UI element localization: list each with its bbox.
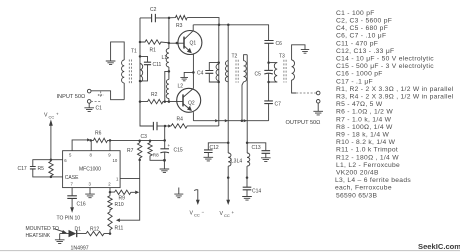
wire: pin 5 jog with arrow [72,138,90,150]
resistor R7 [127,141,142,160]
svg-text:R10: R10 [115,202,124,208]
svg-text:2: 2 [108,182,111,187]
svg-text:C3: C3 [141,134,148,140]
svg-text:R9: R9 [119,196,126,202]
svg-text:5: 5 [69,153,72,158]
node: junction dots R9/R11 [109,191,112,235]
ground (between Q1 and Q2) [180,72,193,80]
node: junction dots (L1/L2 column) [164,17,179,103]
svg-text:C2, C3 - 5600 pF: C2, C3 - 5600 pF [336,18,392,25]
wire: pin 1 stub [120,178,140,180]
svg-text:OUTPUT 50Ω: OUTPUT 50Ω [286,120,321,126]
resistor R9 [110,190,139,201]
svg-text:R3: R3 [176,23,183,29]
svg-text:R11: R11 [115,226,124,232]
ground (C13) [261,158,271,162]
wire: R3 to top rail corner [187,18,219,25]
capacitor C5 [255,63,273,82]
resistor R3 [169,15,187,29]
ground (T1 primary top) [106,61,116,65]
capacitor C11 [140,56,162,81]
wire: Q1 emitter to Q2 collector x=193.4 [192,55,194,89]
svg-text:L4: L4 [237,158,243,164]
svg-text:R7 - 1.0 k, 1/4 W: R7 - 1.0 k, 1/4 W [336,116,392,123]
node: junction dots x=218.7 column [217,61,220,83]
svg-text:R8 - 100Ω, 1/4 W: R8 - 100Ω, 1/4 W [336,124,393,131]
svg-text:R3, R4 - 2 X 3.9Ω , 1/2 W in p: R3, R4 - 2 X 3.9Ω , 1/2 W in parallel [336,94,454,101]
svg-text:CC: CC [49,114,55,119]
capacitor C12 [204,143,228,158]
wire: L2 bypass x=164.8 [165,71,169,101]
svg-text:C14: C14 [252,189,261,195]
wire: top supply rail y=24.8 [193,24,269,26]
svg-text:L3, L4 – 6 ferrite beads: L3, L4 – 6 ferrite beads [335,177,411,184]
capacitor C6 [264,25,282,63]
svg-text:C15 - 500 μF - 3 V electrolyti: C15 - 500 μF - 3 V electrolytic [336,63,434,70]
svg-text:C7: C7 [275,102,282,108]
capacitor C14 [243,178,262,197]
node: arrows and dot on emitter run [215,119,247,122]
wire: R7 bottom to R11 wiper [116,160,140,222]
svg-text:C17 - .1 μF: C17 - .1 μF [336,78,373,85]
label: mounted to heatsink with arrow [26,226,67,239]
svg-text:C1: C1 [96,106,103,112]
svg-text:C16 - 1000 pF: C16 - 1000 pF [336,71,383,78]
svg-text:C6: C6 [276,41,283,47]
svg-text:R12 - 180Ω , 1/4 W: R12 - 180Ω , 1/4 W [336,154,399,161]
svg-text:R7: R7 [127,148,134,154]
wire: left feedback column x=140 from C2 down to C3 corner [140,18,153,126]
svg-text:TO PIN 10: TO PIN 10 [57,216,81,222]
svg-text:Q1: Q1 [190,41,197,47]
svg-text:R8: R8 [153,153,159,158]
svg-text:R4: R4 [177,117,184,123]
resistor R8 [148,141,165,161]
wire: pin 6 [51,159,63,161]
svg-text:R11 - 1.0 k Trimpot: R11 - 1.0 k Trimpot [336,147,398,154]
svg-text:L2: L2 [178,84,184,90]
svg-text:+: + [56,112,59,117]
svg-text:R5: R5 [38,166,45,172]
svg-text:56590 65/3B: 56590 65/3B [336,192,377,199]
wire: T2 wrap-around column x=247.2 [246,55,248,153]
wire: output dashed lead [296,92,316,94]
svg-text:R6 - 1.0Ω , 1/2 W: R6 - 1.0Ω , 1/2 W [336,109,393,116]
ground (floating near VCC-) [174,188,183,198]
node: junction dots L3/L4 columns [227,142,248,179]
supply VCC+ (left) [44,112,59,161]
ground (pin 3) [85,188,95,198]
node: junction dots VCC/R5 [50,158,53,178]
svg-text:+: + [168,143,171,148]
transistor Q2 [177,88,201,120]
resistor R12 [86,227,110,236]
capacitor C16 [57,188,86,222]
svg-text:C1 - 100 pF: C1 - 100 pF [336,10,375,17]
parts list text [335,10,454,199]
diode D1 [60,227,89,252]
svg-text:T3: T3 [279,54,285,60]
input connector circles [57,89,91,103]
svg-text:CC: CC [224,213,230,218]
inductor L1 [162,18,169,67]
ground (D1 anode) [55,234,65,244]
svg-text:R1, R2 - 2 X 3.3Ω , 1/2 W in p: R1, R2 - 2 X 3.3Ω , 1/2 W in parallel [336,86,454,93]
resistor R2 [140,92,183,104]
svg-text:10: 10 [113,158,118,163]
capacitor C13 [247,143,270,158]
svg-text:C17: C17 [18,166,27,172]
svg-text:C4, C5 - 680 pF: C4, C5 - 680 pF [336,25,388,32]
svg-text:C15: C15 [174,148,183,154]
svg-text:V: V [44,113,48,119]
capacitor C2 [140,7,169,22]
svg-text:T2: T2 [232,54,238,60]
svg-text:R9 - 18 k, 1/4 W: R9 - 18 k, 1/4 W [336,132,390,139]
node: junction dots C5/C6/C7 column [267,61,270,83]
ground (T3 secondary top) [301,50,309,54]
svg-text:1: 1 [116,177,119,182]
wire: R7/R8 top rail to C15 [110,139,165,141]
svg-text:C12, C13 - .33 μF: C12, C13 - .33 μF [336,48,394,55]
svg-text:CC: CC [194,212,200,217]
svg-text:9: 9 [108,153,111,158]
ground (C15) [160,160,170,172]
svg-text:C11: C11 [153,62,162,68]
resistor R4 [168,117,219,129]
ground (C12) [204,157,214,161]
svg-text:V: V [190,211,194,217]
svg-text:C11 - 470 pF: C11 - 470 pF [336,40,378,47]
node: junction dots (left column) [139,41,142,103]
svg-text:7: 7 [71,182,74,187]
svg-text:R10 - 8.2 k, 1/4 W: R10 - 8.2 k, 1/4 W [336,139,396,146]
svg-text:L1: L1 [162,55,168,61]
node: junction dots R6 rail [89,139,151,161]
wire: pin 2 stub [109,188,111,196]
svg-text:SeekIC.com: SeekIC.com [418,242,460,251]
capacitor C1 (dashed coax) [91,91,104,111]
wire: pin 8 stub [90,140,92,150]
svg-text:VK200 20/4B: VK200 20/4B [336,170,379,177]
svg-text:T1: T1 [131,49,137,55]
transistor Q1 [169,25,202,55]
wire: bottom scan edge line [0,250,460,252]
resistor R6 [91,131,110,143]
svg-text:V: V [220,211,224,217]
inductor L2 [166,67,183,102]
inductor L4 [237,153,250,178]
resistor R1 [140,40,169,54]
transformer T1 [91,42,143,100]
svg-text:INPUT 50Ω: INPUT 50Ω [57,94,86,100]
svg-text:Q2: Q2 [188,101,195,107]
svg-text:C6, C7 - .10 μF: C6, C7 - .10 μF [336,33,386,40]
node: junction dots top rail [218,24,230,27]
svg-text:C4: C4 [197,71,204,77]
svg-text:C12: C12 [210,145,219,151]
supply VCC- arrow [190,190,205,218]
IC U1 MFC1000 [63,151,121,188]
svg-text:each, Ferroxcube: each, Ferroxcube [335,185,392,192]
inductor (C4 parallel winding) on x=218.7 [216,25,219,126]
resistor R10 [108,196,124,212]
svg-text:R2: R2 [151,92,158,98]
svg-text:+: + [232,210,235,215]
svg-text:MFC1000: MFC1000 [79,167,101,173]
ground (C14) [242,197,252,201]
wire: Q2 emitter run y=120.7 [193,120,268,122]
ground (output) [313,103,323,115]
svg-text:CASE: CASE [65,175,79,181]
trimpot R11 [108,212,124,234]
transformer T3 [269,45,305,93]
svg-text:R12: R12 [90,227,99,233]
output connector circles [286,91,321,126]
inductor L3 [228,153,236,178]
svg-text:C13: C13 [252,145,261,151]
svg-text:C16: C16 [77,202,86,208]
capacitor C17 [18,160,51,177]
svg-text:8: 8 [90,153,93,158]
node: junction dots C3/C15 column [163,125,166,162]
capacitor C4 [197,63,219,82]
svg-text:HEATSINK: HEATSINK [26,233,51,239]
capacitor C3 [141,122,172,140]
ground (input) [84,103,94,111]
svg-text:R5 - 47Ω, 5 W: R5 - 47Ω, 5 W [336,101,383,108]
svg-text:6: 6 [64,158,67,163]
svg-text:C14 - 10 μF - 50 V electrolyti: C14 - 10 μF - 50 V electrolytic [336,56,434,63]
resistor R5 [38,160,54,177]
watermark SeekIC.com [418,242,460,251]
svg-text:R1: R1 [150,48,157,54]
svg-text:3: 3 [89,182,92,187]
capacitor C15 [160,126,182,160]
supply VCC+ (bottom) [220,178,235,218]
svg-text:R6: R6 [95,131,102,137]
svg-text:C5: C5 [255,72,262,78]
svg-text:L1, L2 - Ferroxcube: L1, L2 - Ferroxcube [336,162,400,169]
capacitor C7 [264,82,281,121]
wire: pin 9 stub [109,140,111,150]
node: junction dot Q1-Q2 rail [192,71,195,74]
svg-text:−: − [202,210,205,215]
wire: CASE pin [51,176,63,178]
svg-text:D1: D1 [75,227,82,233]
svg-text:C2: C2 [150,7,157,13]
transformer T2 [225,25,247,153]
